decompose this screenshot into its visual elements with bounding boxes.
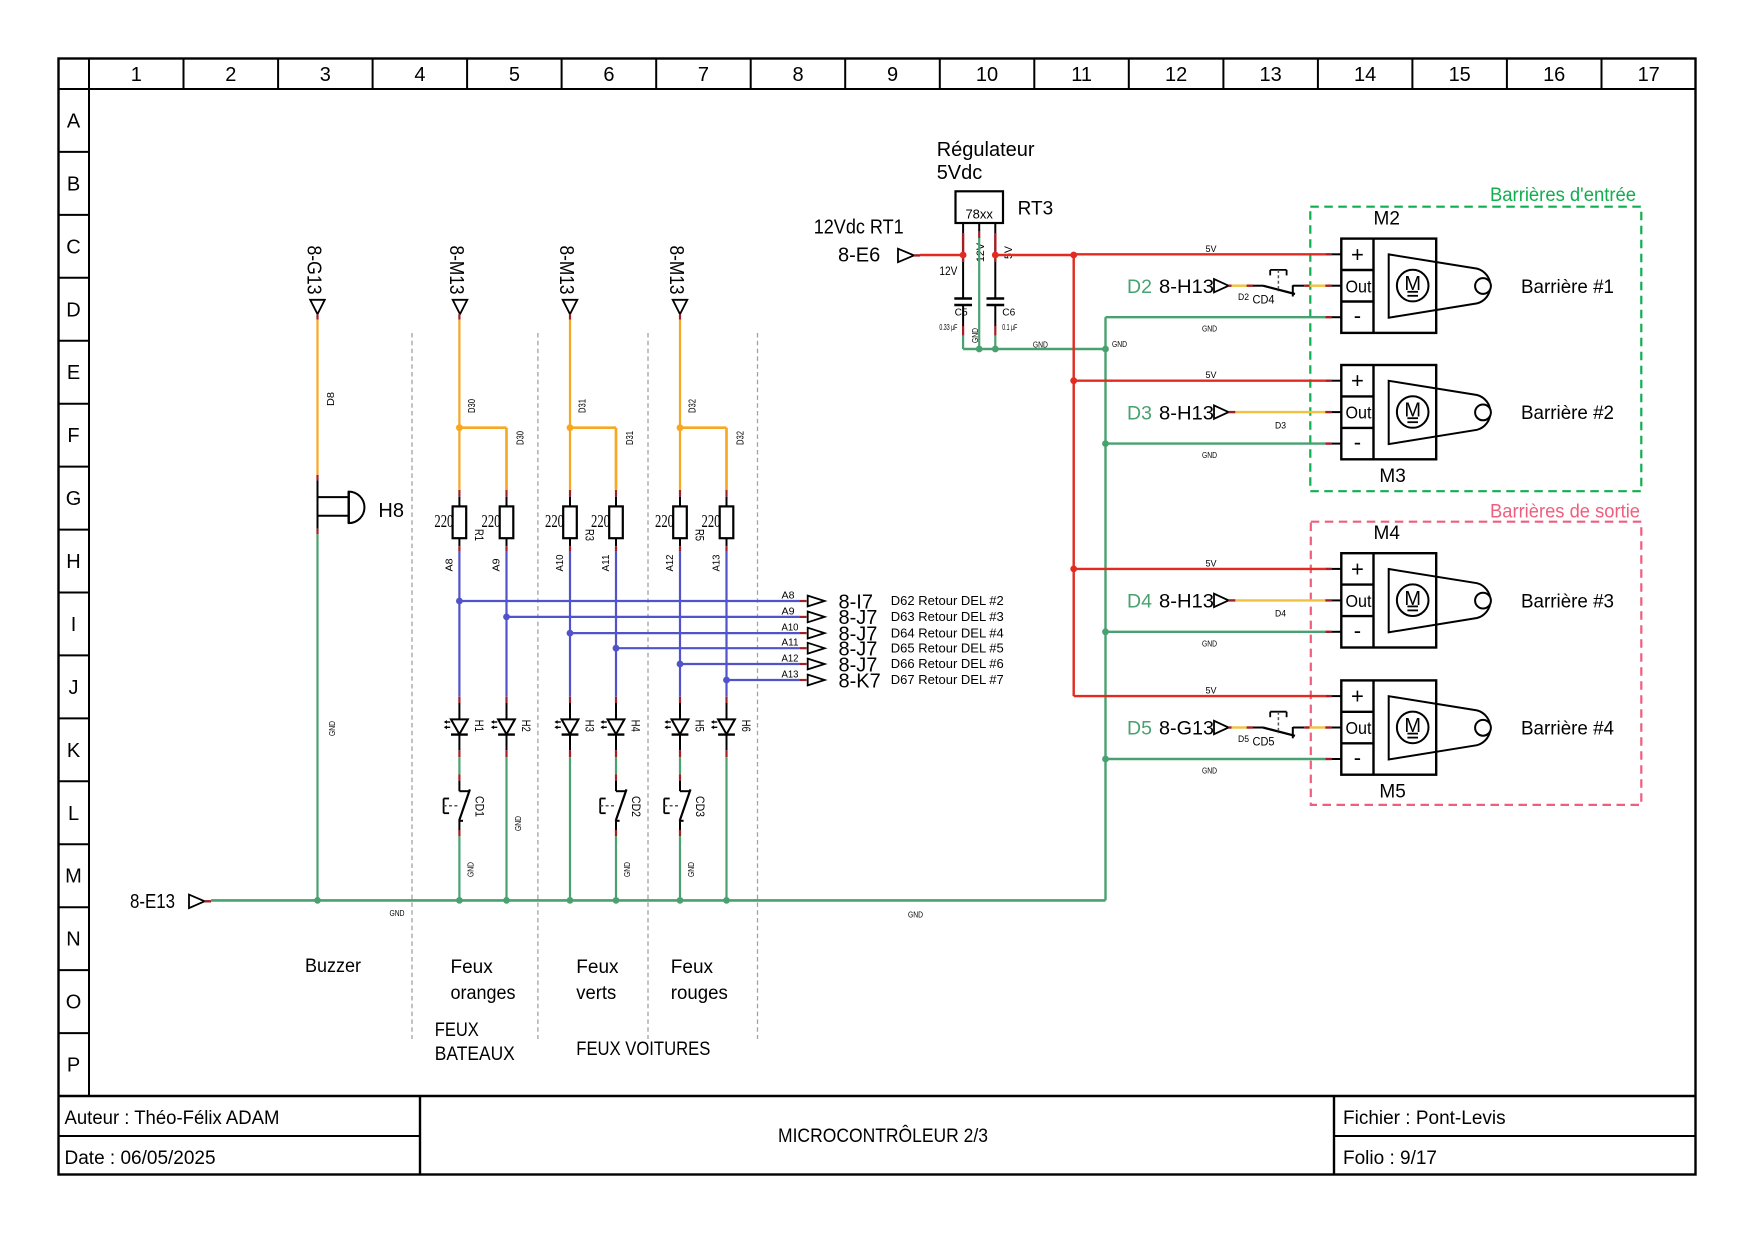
wire net A13 (blue) to output port 8-K7 bbox=[727, 679, 807, 681]
svg-text:8-G13: 8-G13 bbox=[1159, 718, 1214, 740]
svg-text:FEUX VOITURES: FEUX VOITURES bbox=[576, 1039, 710, 1060]
svg-text:5V: 5V bbox=[1003, 245, 1015, 259]
LED H6 bbox=[711, 719, 735, 734]
svg-text:D5: D5 bbox=[1127, 718, 1152, 740]
svg-text:D64 Retour DEL #4: D64 Retour DEL #4 bbox=[891, 625, 1004, 640]
svg-text:D63 Retour DEL #3: D63 Retour DEL #3 bbox=[891, 609, 1004, 624]
wire net D32 (orange) from port 8-M13 to resistors bbox=[680, 314, 727, 506]
motor terminal block M4 bbox=[1341, 553, 1436, 647]
svg-text:13: 13 bbox=[1259, 64, 1281, 86]
svg-text:D31: D31 bbox=[625, 431, 636, 445]
junction 5V to M3 bbox=[1070, 377, 1077, 384]
wire net 12V (red) from port 8-E6 to regulator input pin bbox=[914, 254, 963, 257]
wire net 5V (red) to barrier + terminal bbox=[1074, 695, 1342, 697]
resistor R2 220 ohm bbox=[500, 506, 514, 538]
svg-text:-: - bbox=[1354, 618, 1361, 643]
wire net A11 (blue) to output port 8-J7 bbox=[616, 647, 807, 649]
svg-text:14: 14 bbox=[1354, 64, 1376, 86]
input port 8-M13 (from sheet 8) bbox=[665, 246, 687, 315]
svg-text:CD2: CD2 bbox=[629, 796, 643, 817]
svg-text:D4: D4 bbox=[1127, 591, 1152, 613]
svg-text:5Vdc: 5Vdc bbox=[937, 162, 983, 184]
wire net GND (green) to barrier - terminal bbox=[1106, 631, 1342, 633]
svg-text:Barrière #2: Barrière #2 bbox=[1521, 402, 1614, 424]
svg-text:D5: D5 bbox=[1238, 734, 1249, 744]
svg-text:A13: A13 bbox=[712, 554, 723, 571]
svg-text:RT3: RT3 bbox=[1018, 199, 1054, 220]
svg-text:2: 2 bbox=[225, 64, 236, 86]
wire net A8 (blue) to output port 8-I7 bbox=[459, 600, 806, 602]
svg-text:BATEAUX: BATEAUX bbox=[435, 1044, 515, 1065]
svg-text:11: 11 bbox=[1071, 64, 1092, 86]
pivot hole of M3 bbox=[1475, 405, 1491, 421]
svg-text:H5: H5 bbox=[693, 720, 707, 732]
svg-text:J: J bbox=[69, 677, 79, 699]
svg-text:Feux: Feux bbox=[451, 957, 494, 978]
input port 8-G13 triangle bbox=[1214, 721, 1229, 734]
resistor R5 220 ohm bbox=[673, 506, 687, 538]
regulator input pin wire (12V) bbox=[962, 223, 964, 299]
wire (yellow) switch CD4 to barrier Out terminal bbox=[1293, 285, 1342, 287]
svg-text:GND: GND bbox=[1202, 324, 1217, 334]
wire net A10 (blue) to output port 8-J7 bbox=[570, 632, 807, 634]
switch CD1 (normally-closed pushbutton contact) bbox=[444, 789, 470, 820]
svg-text:C: C bbox=[66, 236, 80, 258]
svg-text:Barrières de sortie: Barrières de sortie bbox=[1490, 502, 1640, 523]
wire net 5V (red) vertical distribution bbox=[1072, 255, 1074, 696]
wire net A8 (blue) resistor to LED H1 bbox=[458, 538, 460, 719]
svg-text:8-M13: 8-M13 bbox=[445, 246, 467, 295]
svg-text:Feux: Feux bbox=[576, 957, 619, 978]
output port 8-K7 bbox=[808, 675, 825, 686]
junction on net D31 bbox=[567, 424, 574, 431]
svg-text:12V: 12V bbox=[939, 264, 957, 278]
wire net GND (green) to barrier - terminal bbox=[1106, 758, 1342, 760]
junction on net A12 bbox=[677, 661, 684, 668]
svg-text:8-E6: 8-E6 bbox=[838, 245, 880, 267]
svg-text:E: E bbox=[67, 362, 80, 384]
svg-text:GND: GND bbox=[970, 328, 980, 343]
junction on net D30 bbox=[456, 424, 463, 431]
svg-text:F: F bbox=[67, 425, 79, 447]
wire GND (green) switch CD2 to ground bus bbox=[615, 821, 617, 901]
motor circle M of M5 bbox=[1397, 712, 1429, 744]
switch CD2 (normally-closed pushbutton contact) bbox=[600, 789, 626, 820]
motor terminal block M2 bbox=[1341, 239, 1436, 333]
svg-text:8-H13: 8-H13 bbox=[1159, 276, 1214, 298]
pink dashed box Barrieres de sortie bbox=[1311, 522, 1642, 805]
svg-text:8-H13: 8-H13 bbox=[1159, 591, 1214, 613]
wire net GND (green) vertical distribution bbox=[1104, 317, 1106, 900]
svg-text:15: 15 bbox=[1449, 64, 1471, 86]
svg-text:8-M13: 8-M13 bbox=[665, 246, 687, 295]
svg-text:C5: C5 bbox=[955, 308, 968, 319]
regulator ground pin wire (GND green) bbox=[978, 223, 980, 349]
svg-text:GND: GND bbox=[465, 862, 475, 877]
input port 8-H13 triangle bbox=[1214, 405, 1229, 418]
svg-text:B: B bbox=[67, 173, 80, 195]
pivot hole of M4 bbox=[1475, 593, 1491, 609]
input port 8-H13 triangle bbox=[1214, 594, 1229, 607]
svg-text:M3: M3 bbox=[1379, 466, 1405, 487]
wire net D31 (orange) from port 8-M13 to resistors bbox=[570, 314, 616, 506]
svg-text:CD4: CD4 bbox=[1253, 293, 1275, 307]
svg-text:D65 Retour DEL #5: D65 Retour DEL #5 bbox=[891, 640, 1004, 655]
wire net 5V (red) to barrier + terminal bbox=[1074, 380, 1342, 382]
wire GND (green) LED H6 cathode to ground bus bbox=[726, 735, 728, 901]
input port 8-E6 triangle bbox=[898, 249, 914, 263]
input port 8-H13 triangle bbox=[1214, 279, 1229, 292]
svg-text:FEUX: FEUX bbox=[435, 1020, 479, 1041]
wire net GND ground bus (green) from port 8-E13 to barriers bbox=[205, 899, 1106, 902]
junction on net A13 bbox=[723, 677, 730, 684]
svg-text:CD5: CD5 bbox=[1253, 734, 1275, 748]
input port 8-M13 (from sheet 8) bbox=[445, 246, 467, 315]
barrier arm symbol of M4 bbox=[1389, 569, 1491, 632]
svg-text:5: 5 bbox=[509, 64, 520, 86]
wire net D4 (yellow) port to barrier Out terminal bbox=[1229, 599, 1342, 601]
svg-text:4: 4 bbox=[414, 64, 425, 86]
svg-text:MICROCONTRÔLEUR 2/3: MICROCONTRÔLEUR 2/3 bbox=[778, 1125, 988, 1147]
output port 8-J7 bbox=[808, 643, 825, 654]
svg-text:6: 6 bbox=[603, 64, 614, 86]
output port 8-J7 bbox=[808, 612, 825, 623]
wire GND (green) switch CD3 to ground bus bbox=[679, 821, 681, 901]
motor circle M of M2 bbox=[1397, 270, 1429, 302]
LED H2 bbox=[491, 719, 515, 734]
junction GND vertical at M5 rail bbox=[1102, 756, 1109, 763]
svg-text:220: 220 bbox=[545, 511, 564, 531]
svg-text:12: 12 bbox=[1165, 64, 1187, 86]
svg-text:D30: D30 bbox=[467, 399, 478, 413]
wire net A10 (blue) resistor to LED H3 bbox=[569, 538, 571, 719]
svg-text:D2: D2 bbox=[1127, 276, 1152, 298]
barrier arm symbol of M3 bbox=[1389, 381, 1491, 444]
wire net D5 (yellow) port to switch CD5 bbox=[1229, 726, 1263, 728]
junction 5V to M4 bbox=[1070, 566, 1077, 573]
svg-text:8-K7: 8-K7 bbox=[839, 670, 881, 692]
dashed zone separator (Feux oranges | Feux verts) bbox=[537, 333, 539, 1039]
svg-text:Out: Out bbox=[1346, 718, 1372, 738]
wire (yellow) switch CD5 to barrier Out terminal bbox=[1293, 727, 1342, 729]
wire net A12 (blue) to output port 8-J7 bbox=[680, 663, 807, 665]
junction GND at C6 bbox=[992, 346, 999, 353]
wire (green) LED H1 cathode to switch CD1 bbox=[458, 735, 460, 792]
LED H5 bbox=[664, 719, 688, 734]
svg-text:A9: A9 bbox=[492, 558, 503, 571]
junction on net A11 bbox=[613, 645, 620, 652]
svg-text:Folio : 9/17: Folio : 9/17 bbox=[1343, 1148, 1437, 1169]
pivot hole of M5 bbox=[1475, 720, 1491, 736]
motor terminal block M3 bbox=[1341, 365, 1436, 459]
svg-text:CD3: CD3 bbox=[693, 796, 707, 817]
svg-text:GND: GND bbox=[327, 721, 337, 736]
output port 8-I7 bbox=[808, 596, 825, 607]
svg-text:10: 10 bbox=[976, 64, 998, 86]
junction GND vertical at regulator rail bbox=[1102, 346, 1109, 353]
svg-text:Out: Out bbox=[1346, 276, 1372, 296]
svg-text:rouges: rouges bbox=[671, 983, 728, 1004]
svg-text:O: O bbox=[66, 992, 82, 1014]
svg-text:-: - bbox=[1354, 745, 1361, 770]
svg-text:D3: D3 bbox=[1275, 420, 1286, 430]
svg-text:8-H13: 8-H13 bbox=[1159, 402, 1214, 424]
svg-text:Feux: Feux bbox=[671, 957, 714, 978]
barrier arm symbol of M5 bbox=[1389, 696, 1491, 759]
wire net GND (green) regulator ground rail bbox=[963, 348, 1105, 350]
svg-text:Auteur : Théo-Félix ADAM: Auteur : Théo-Félix ADAM bbox=[65, 1108, 280, 1129]
wire net D2 (yellow) port to switch CD4 bbox=[1229, 285, 1263, 287]
output port 8-J7 bbox=[808, 628, 825, 639]
svg-text:D32: D32 bbox=[736, 431, 747, 445]
column header ticks and numbers 1-17 bbox=[131, 59, 1660, 90]
junction 5V at C6 bbox=[992, 252, 999, 259]
svg-text:A9: A9 bbox=[782, 606, 795, 617]
svg-text:Fichier : Pont-Levis: Fichier : Pont-Levis bbox=[1343, 1108, 1506, 1129]
resistor R6 220 ohm bbox=[720, 506, 734, 538]
svg-text:Out: Out bbox=[1346, 403, 1372, 423]
junction GND bus at column 6 bbox=[723, 897, 730, 904]
svg-text:D62 Retour DEL #2: D62 Retour DEL #2 bbox=[891, 593, 1004, 608]
svg-text:8-G13: 8-G13 bbox=[303, 246, 325, 295]
wire C5 bottom to GND (green) bbox=[962, 305, 964, 349]
junction GND bus at buzzer column bbox=[314, 897, 321, 904]
input port 8-E13 triangle bbox=[189, 895, 205, 909]
svg-text:A10: A10 bbox=[555, 554, 566, 571]
svg-text:GND: GND bbox=[390, 908, 405, 918]
green dashed box Barrieres d entree bbox=[1310, 207, 1641, 492]
LED H4 bbox=[600, 719, 624, 734]
svg-text:C6: C6 bbox=[1002, 308, 1015, 319]
svg-text:0.33 µF: 0.33 µF bbox=[939, 322, 957, 332]
switch CD4 (pushbutton contact) bbox=[1263, 270, 1295, 297]
svg-text:A: A bbox=[67, 111, 81, 133]
wire net A9 (blue) to output port 8-J7 bbox=[507, 616, 807, 618]
svg-text:0.1 µF: 0.1 µF bbox=[1002, 322, 1017, 332]
svg-text:K: K bbox=[67, 740, 81, 762]
dashed zone separator (Buzzer | Feux oranges) bbox=[411, 333, 413, 1039]
wire GND (green) LED H3 cathode to ground bus bbox=[569, 735, 571, 901]
svg-text:Barrière #4: Barrière #4 bbox=[1521, 718, 1614, 740]
barrier arm symbol of M2 bbox=[1389, 254, 1491, 317]
svg-text:D8: D8 bbox=[326, 392, 337, 406]
svg-text:220: 220 bbox=[655, 511, 674, 531]
svg-text:oranges: oranges bbox=[451, 983, 516, 1004]
svg-text:D32: D32 bbox=[688, 399, 699, 413]
svg-text:D66 Retour DEL #6: D66 Retour DEL #6 bbox=[891, 656, 1004, 671]
svg-text:A8: A8 bbox=[444, 558, 455, 571]
label Regulateur 5Vdc bbox=[937, 139, 1035, 184]
svg-text:220: 220 bbox=[702, 511, 721, 531]
input port 8-G13 (from sheet 8) bbox=[303, 246, 325, 315]
svg-text:verts: verts bbox=[576, 983, 616, 1004]
LED H3 bbox=[554, 719, 578, 734]
svg-text:H8: H8 bbox=[378, 500, 404, 522]
label FEUX BATEAUX bbox=[435, 1020, 515, 1065]
svg-text:H: H bbox=[66, 551, 80, 573]
svg-text:Out: Out bbox=[1346, 591, 1372, 611]
svg-text:H4: H4 bbox=[629, 720, 643, 732]
input port 8-M13 (from sheet 8) bbox=[555, 246, 577, 315]
svg-text:220: 220 bbox=[434, 511, 453, 531]
svg-text:H1: H1 bbox=[472, 720, 486, 732]
wire net A9 (blue) resistor to LED H2 bbox=[506, 538, 508, 719]
label Feux verts zone bbox=[576, 957, 619, 1004]
svg-text:5V: 5V bbox=[1206, 686, 1218, 697]
svg-text:Buzzer: Buzzer bbox=[305, 956, 362, 977]
svg-text:M4: M4 bbox=[1374, 523, 1401, 544]
dashed zone separator (Feux verts | Feux rouges) bbox=[647, 333, 649, 1039]
svg-text:9: 9 bbox=[887, 64, 898, 86]
motor circle M of M3 bbox=[1397, 396, 1429, 428]
capacitor C6 bbox=[987, 299, 1005, 306]
svg-text:D31: D31 bbox=[578, 399, 589, 413]
svg-text:8-M13: 8-M13 bbox=[555, 246, 577, 295]
resistor R1 220 ohm bbox=[453, 506, 467, 538]
svg-text:Barrière #3: Barrière #3 bbox=[1521, 590, 1614, 612]
switch CD5 (pushbutton contact) bbox=[1263, 712, 1295, 739]
svg-text:GND: GND bbox=[908, 910, 923, 920]
LED H1 bbox=[444, 719, 468, 734]
wire net A12 (blue) resistor to LED H5 bbox=[679, 538, 681, 719]
wire net A13 (blue) resistor to LED H6 bbox=[726, 538, 728, 719]
svg-text:A12: A12 bbox=[665, 554, 676, 571]
junction GND at regulator ground pin bbox=[976, 346, 983, 353]
svg-text:1: 1 bbox=[131, 64, 142, 86]
wire net GND (green) to barrier - terminal bbox=[1106, 316, 1342, 318]
svg-text:GND: GND bbox=[1202, 450, 1217, 460]
svg-text:H6: H6 bbox=[739, 720, 753, 732]
svg-text:5V: 5V bbox=[1206, 558, 1218, 569]
svg-text:A11: A11 bbox=[782, 638, 799, 649]
svg-text:A12: A12 bbox=[782, 654, 799, 665]
svg-text:D3: D3 bbox=[1127, 402, 1152, 424]
wire (green) LED H4 cathode to switch CD2 bbox=[615, 735, 617, 792]
svg-text:M2: M2 bbox=[1374, 209, 1400, 230]
svg-text:8-E13: 8-E13 bbox=[130, 891, 175, 913]
svg-text:220: 220 bbox=[482, 511, 501, 531]
wire net D30 (orange) from port 8-M13 to resistors bbox=[459, 314, 506, 506]
wire (green) LED H5 cathode to switch CD3 bbox=[679, 735, 681, 792]
svg-text:H2: H2 bbox=[519, 720, 533, 732]
label Feux rouges zone bbox=[671, 957, 728, 1004]
svg-text:Régulateur: Régulateur bbox=[937, 139, 1035, 161]
resistor R3 220 ohm bbox=[563, 506, 577, 538]
svg-text:3: 3 bbox=[320, 64, 331, 86]
svg-text:-: - bbox=[1354, 430, 1361, 455]
svg-text:12Vdc RT1: 12Vdc RT1 bbox=[814, 217, 904, 239]
junction GND bus at column 1 bbox=[456, 897, 463, 904]
svg-text:5V: 5V bbox=[1206, 244, 1218, 255]
svg-text:A10: A10 bbox=[782, 623, 799, 634]
svg-text:N: N bbox=[66, 929, 80, 951]
motor terminal block M5 bbox=[1341, 680, 1436, 774]
wire GND (green) switch CD1 to ground bus bbox=[458, 821, 460, 901]
wire net A11 (blue) resistor to LED H4 bbox=[615, 538, 617, 719]
junction on net A9 bbox=[503, 614, 510, 621]
svg-text:GND: GND bbox=[513, 816, 523, 831]
junction GND bus at column 4 bbox=[613, 897, 620, 904]
svg-text:5V: 5V bbox=[1206, 370, 1218, 381]
wire GND (green) from buzzer H8 down to ground bus bbox=[317, 516, 319, 901]
svg-text:+: + bbox=[1351, 242, 1364, 267]
junction GND bus at column 5 bbox=[677, 897, 684, 904]
svg-text:L: L bbox=[68, 803, 79, 825]
svg-text:16: 16 bbox=[1543, 64, 1565, 86]
svg-text:M5: M5 bbox=[1379, 781, 1405, 802]
svg-text:GND: GND bbox=[1112, 339, 1127, 349]
junction 12V at C5 bbox=[960, 252, 967, 259]
svg-text:P: P bbox=[67, 1055, 80, 1077]
junction on net D32 bbox=[677, 424, 684, 431]
svg-text:12V: 12V bbox=[975, 242, 987, 262]
wire net GND (green) to barrier - terminal bbox=[1106, 442, 1342, 444]
voltage regulator RT3 78xx body bbox=[956, 191, 1004, 223]
svg-text:-: - bbox=[1354, 303, 1361, 328]
svg-text:220: 220 bbox=[591, 511, 610, 531]
svg-text:CD1: CD1 bbox=[472, 796, 486, 817]
wire net D3 (yellow) port to barrier Out terminal bbox=[1229, 411, 1342, 413]
output port 8-J7 bbox=[808, 659, 825, 670]
svg-text:GND: GND bbox=[686, 862, 696, 877]
svg-text:+: + bbox=[1351, 368, 1364, 393]
regulator output pin wire (5V) bbox=[994, 223, 996, 299]
label Feux oranges zone bbox=[451, 957, 516, 1004]
svg-text:H3: H3 bbox=[583, 720, 597, 732]
svg-text:D4: D4 bbox=[1275, 609, 1286, 619]
svg-text:GND: GND bbox=[622, 862, 632, 877]
junction 5V main bbox=[1070, 252, 1077, 259]
wire C6 bottom to GND (green) bbox=[994, 305, 996, 349]
svg-text:Date : 06/05/2025: Date : 06/05/2025 bbox=[65, 1148, 216, 1169]
svg-text:D2: D2 bbox=[1238, 292, 1249, 302]
dashed zone separator (right of Feux rouges) bbox=[757, 333, 759, 1039]
svg-text:GND: GND bbox=[1202, 766, 1217, 776]
svg-text:D67 Retour DEL #7: D67 Retour DEL #7 bbox=[891, 672, 1004, 687]
wire net 5V (red) to barrier + terminal bbox=[1074, 253, 1342, 255]
junction GND bus at column 2 bbox=[503, 897, 510, 904]
svg-text:G: G bbox=[66, 488, 82, 510]
wire net D8 (orange) from port 8-G13 down to buzzer H8 bbox=[316, 314, 318, 497]
junction on net A10 bbox=[567, 630, 574, 637]
svg-text:M: M bbox=[65, 866, 82, 888]
row header ticks and letters A-P bbox=[59, 111, 90, 1077]
pivot hole of M2 bbox=[1475, 278, 1491, 294]
junction GND bus at column 3 bbox=[567, 897, 574, 904]
svg-text:A11: A11 bbox=[601, 554, 612, 571]
title block bbox=[59, 1096, 1696, 1175]
svg-text:Barrière #1: Barrière #1 bbox=[1521, 276, 1614, 298]
wire net 5V (red) regulator output to barrier rail bbox=[995, 254, 1073, 256]
svg-text:D30: D30 bbox=[516, 431, 527, 445]
svg-text:7: 7 bbox=[698, 64, 709, 86]
svg-text:I: I bbox=[71, 614, 77, 636]
svg-text:+: + bbox=[1351, 556, 1364, 581]
svg-text:Barrières d'entrée: Barrières d'entrée bbox=[1490, 185, 1636, 206]
svg-text:A8: A8 bbox=[782, 591, 795, 602]
junction GND vertical at M4 rail bbox=[1102, 628, 1109, 635]
svg-text:GND: GND bbox=[1202, 638, 1217, 648]
svg-text:A13: A13 bbox=[782, 670, 799, 681]
junction GND vertical at M3 rail bbox=[1102, 440, 1109, 447]
buzzer H8 bbox=[318, 492, 365, 523]
svg-text:+: + bbox=[1351, 684, 1364, 709]
svg-text:17: 17 bbox=[1638, 64, 1660, 86]
motor circle M of M4 bbox=[1397, 584, 1429, 616]
switch CD3 (normally-closed pushbutton contact) bbox=[664, 789, 690, 820]
svg-text:D: D bbox=[66, 299, 80, 321]
svg-text:GND: GND bbox=[1033, 340, 1048, 350]
